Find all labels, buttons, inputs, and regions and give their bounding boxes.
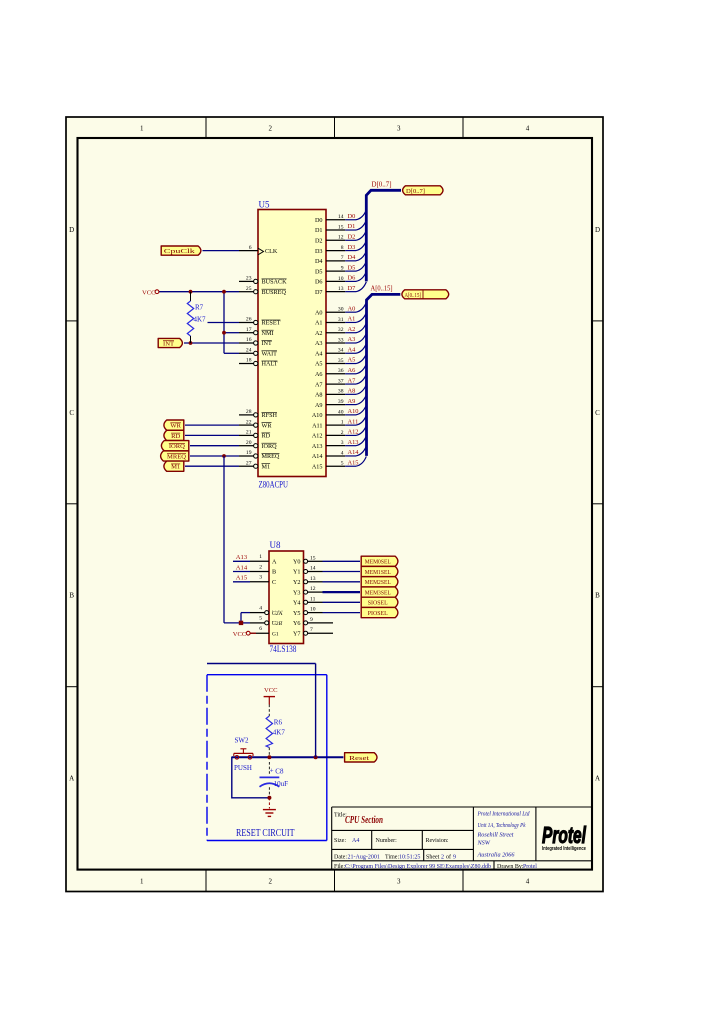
svg-text:A14: A14: [236, 564, 248, 571]
wires from D pins to data bus entries: [345, 210, 366, 292]
svg-text:4K7: 4K7: [194, 316, 207, 324]
wires Y0-Y5 to chip-select ports: [323, 561, 361, 612]
svg-text:A6: A6: [348, 367, 356, 374]
svg-text:RD: RD: [262, 433, 271, 440]
svg-text:7: 7: [310, 627, 313, 633]
designator U8: [270, 540, 281, 550]
svg-text:MEM1SEL: MEM1SEL: [365, 569, 391, 576]
svg-text:2: 2: [259, 564, 262, 570]
svg-text:A0: A0: [348, 305, 356, 312]
switch SW2 PUSH: [234, 737, 253, 772]
port MREQ: [161, 451, 189, 461]
svg-text:R6: R6: [274, 719, 283, 727]
wires from A pins to address bus entries: [345, 302, 366, 466]
svg-text:U5: U5: [259, 200, 270, 210]
svg-text:C8: C8: [275, 768, 284, 776]
CLK pin clock wedge symbol: [258, 248, 264, 255]
port MEM3SEL: [361, 587, 398, 597]
title block frame: [332, 807, 592, 870]
svg-text:BUSACK: BUSACK: [262, 279, 288, 286]
svg-text:B: B: [69, 592, 74, 600]
svg-text:16: 16: [246, 337, 252, 343]
svg-text:1: 1: [341, 420, 344, 426]
company address block: [477, 811, 531, 859]
junction R6/C8 on reset node: [267, 755, 271, 759]
svg-text:Unit 1A, Technology Pk: Unit 1A, Technology Pk: [478, 822, 526, 829]
svg-text:D1: D1: [348, 223, 356, 230]
svg-text:RD: RD: [171, 433, 180, 440]
wire MREQ port to MREQ pin: [190, 455, 239, 457]
svg-text:A9: A9: [348, 398, 356, 405]
svg-text:C: C: [595, 409, 600, 417]
svg-text:C: C: [272, 579, 276, 586]
svg-text:MEM2SEL: MEM2SEL: [365, 579, 391, 586]
port A[0..15]: [402, 290, 449, 299]
svg-text:9: 9: [453, 855, 456, 861]
svg-text:Y2: Y2: [293, 579, 301, 586]
svg-text:Protel: Protel: [542, 822, 586, 848]
svg-text:37: 37: [338, 378, 344, 384]
svg-text:Y3: Y3: [293, 589, 301, 596]
svg-text:Protel International Ltd: Protel International Ltd: [477, 811, 531, 818]
svg-text:Time:: Time:: [385, 855, 399, 861]
wire M1 port to M1 pin: [185, 465, 239, 467]
wire WR port to WR pin: [185, 424, 239, 426]
svg-text:WAIT: WAIT: [262, 351, 278, 358]
junction R7/INT: [189, 341, 193, 345]
svg-text:2: 2: [441, 855, 444, 861]
svg-text:MREQ: MREQ: [262, 453, 280, 460]
svg-text:25: 25: [246, 286, 252, 292]
svg-text:INT: INT: [163, 340, 174, 347]
svg-text:26: 26: [246, 317, 252, 323]
svg-text:Number:: Number:: [376, 838, 398, 844]
svg-text:19: 19: [246, 450, 252, 456]
svg-text:15: 15: [338, 224, 344, 230]
port SIOSEL: [361, 597, 398, 607]
svg-text:Y7: Y7: [293, 630, 301, 637]
vertical wire VCC rail to WAIT: [223, 292, 225, 354]
svg-text:A4: A4: [315, 350, 323, 357]
svg-text:D[0..7]: D[0..7]: [406, 188, 425, 195]
svg-text:G2A: G2A: [272, 611, 283, 617]
wire VCC to BUSREQ pin: [159, 291, 239, 293]
svg-text:18: 18: [246, 358, 252, 364]
svg-text:D4: D4: [315, 258, 323, 265]
wire to NMI pin: [224, 332, 239, 334]
svg-text:VCC: VCC: [142, 289, 156, 296]
wire to WAIT pin: [224, 352, 239, 354]
svg-text:A4: A4: [348, 346, 357, 353]
svg-text:40: 40: [338, 409, 344, 415]
svg-text:31: 31: [338, 317, 344, 323]
junction VCC/vertical rail: [222, 290, 226, 294]
svg-text:3: 3: [341, 440, 344, 446]
svg-text:36: 36: [338, 368, 344, 374]
svg-text:30: 30: [338, 307, 344, 313]
designator U5: [259, 200, 270, 210]
wires to G2A/G2B with junction: [239, 613, 250, 626]
part name Z80ACPU: [259, 480, 289, 490]
svg-text:C:\Program Files\Design Explor: C:\Program Files\Design Explorer 99 SE\E…: [345, 864, 491, 870]
svg-text:Y4: Y4: [293, 600, 301, 607]
svg-text:10: 10: [310, 607, 316, 613]
svg-text:Integrated Intelligence: Integrated Intelligence: [542, 846, 586, 852]
svg-text:Y1: Y1: [293, 569, 301, 576]
svg-text:RESET CIRCUIT: RESET CIRCUIT: [236, 828, 295, 839]
svg-text:NSW: NSW: [477, 840, 491, 847]
svg-text:4: 4: [526, 878, 530, 886]
svg-text:SW2: SW2: [235, 737, 250, 745]
svg-text:32: 32: [338, 327, 344, 333]
svg-text:A13: A13: [312, 443, 323, 450]
svg-text:U8: U8: [270, 540, 281, 550]
svg-text:MEM0SEL: MEM0SEL: [365, 559, 391, 566]
svg-text:21-Aug-2001: 21-Aug-2001: [348, 855, 380, 861]
svg-text:Z80ACPU: Z80ACPU: [259, 480, 289, 490]
wire SW2 left leg loop: [232, 757, 270, 798]
U5 data pins D0-D7 with pin numbers and net labels: [315, 213, 356, 296]
svg-text:Size:: Size:: [334, 838, 346, 844]
port Reset: [345, 753, 377, 762]
svg-text:A11: A11: [312, 422, 322, 429]
svg-text:4: 4: [526, 125, 530, 133]
port D[0..7]: [403, 186, 443, 195]
wire to RESET pin: [208, 322, 240, 324]
svg-text:14: 14: [310, 566, 316, 572]
U8 output pins Y0-Y7 with pin numbers: [293, 555, 333, 637]
port INT: [158, 338, 182, 347]
svg-text:1: 1: [140, 125, 144, 133]
sheet zone dividers and labels: [66, 117, 603, 892]
junction MREQ to decoder rail: [222, 454, 226, 458]
svg-text:2: 2: [268, 878, 272, 886]
wire VCC to R6 (dotted): [268, 705, 270, 717]
svg-text:Y5: Y5: [293, 610, 301, 617]
port CpuClk: [161, 246, 201, 255]
svg-text:INT: INT: [262, 340, 273, 347]
svg-text:CpuClk: CpuClk: [164, 248, 196, 255]
svg-text:33: 33: [338, 337, 344, 343]
svg-text:A3: A3: [315, 340, 323, 347]
junction reset node / feed wire: [314, 755, 318, 759]
svg-text:A3: A3: [348, 336, 356, 343]
svg-text:Rosehill Street: Rosehill Street: [477, 832, 514, 839]
svg-text:File:: File:: [334, 864, 345, 870]
port MEM2SEL: [361, 577, 398, 587]
vertical wire MREQ to 74LS138 enables: [224, 456, 241, 623]
svg-text:17: 17: [246, 327, 252, 333]
svg-text:D2: D2: [348, 234, 356, 241]
svg-text:23: 23: [246, 276, 252, 282]
port M1: [164, 461, 184, 471]
svg-text:A11: A11: [348, 418, 359, 425]
svg-text:A12: A12: [348, 429, 359, 436]
junction C8/SW2 ground node: [267, 796, 271, 800]
U5 address pins A0-A15 with pin numbers and net labels: [312, 305, 359, 470]
svg-text:MEM3SEL: MEM3SEL: [365, 590, 391, 597]
svg-text:A5: A5: [348, 357, 356, 364]
svg-text:13: 13: [310, 576, 316, 582]
svg-text:R7: R7: [195, 304, 204, 312]
svg-text:12: 12: [310, 586, 316, 592]
port IORQ: [161, 441, 188, 451]
svg-text:35: 35: [338, 358, 344, 364]
svg-text:14: 14: [338, 214, 344, 220]
svg-text:RESET: RESET: [262, 320, 281, 327]
svg-text:11: 11: [310, 596, 316, 602]
resistor R7 4K7: [187, 292, 206, 343]
svg-text:15: 15: [310, 555, 316, 561]
svg-text:2: 2: [341, 430, 344, 436]
svg-text:M1: M1: [171, 464, 180, 471]
svg-text:5: 5: [341, 461, 344, 467]
port MEM1SEL: [361, 566, 398, 576]
svg-text:D6: D6: [348, 275, 356, 282]
svg-text:C: C: [69, 409, 74, 417]
svg-text:Protel: Protel: [523, 864, 537, 870]
svg-text:A12: A12: [312, 433, 323, 440]
port RD: [164, 430, 184, 440]
svg-text:1: 1: [259, 554, 262, 560]
title block texts: [334, 813, 537, 871]
svg-text:RFSH: RFSH: [262, 412, 278, 419]
wire CpuClk to CLK pin: [203, 250, 240, 252]
svg-text:A2: A2: [315, 330, 323, 337]
junction VCC/R7: [189, 290, 193, 294]
svg-text:A15: A15: [312, 463, 323, 470]
svg-text:PIOSEL: PIOSEL: [368, 610, 388, 617]
svg-text:D: D: [595, 226, 600, 234]
wire R6 to reset node (dotted): [268, 748, 270, 756]
IC U5 Z80ACPU body: [258, 210, 326, 477]
port WR: [164, 420, 184, 430]
wire RD port to RD pin: [185, 434, 239, 436]
svg-text:39: 39: [338, 399, 344, 405]
svg-text:A15: A15: [236, 575, 248, 582]
svg-text:of: of: [446, 854, 451, 861]
svg-text:D[0..7]: D[0..7]: [372, 180, 392, 188]
svg-text:A[0..15]: A[0..15]: [405, 292, 422, 299]
Protel logo: [542, 822, 586, 852]
svg-text:IORQ: IORQ: [262, 443, 278, 450]
bus net label D[0..7]: [372, 180, 392, 188]
reset node wire to Reset port: [232, 756, 344, 758]
svg-text:74LS138: 74LS138: [270, 644, 297, 654]
svg-text:A1: A1: [348, 316, 356, 323]
svg-text:IORQ: IORQ: [169, 443, 185, 450]
svg-text:A10: A10: [348, 408, 359, 415]
svg-text:A14: A14: [312, 453, 323, 460]
resistor R6 4K7: [266, 716, 285, 748]
svg-text:Y0: Y0: [293, 559, 301, 566]
svg-text:D0: D0: [315, 217, 323, 224]
svg-text:D1: D1: [315, 227, 323, 234]
svg-text:3: 3: [397, 125, 401, 133]
svg-text:D7: D7: [348, 285, 357, 292]
svg-text:10uF: 10uF: [274, 780, 289, 788]
svg-text:5: 5: [259, 616, 262, 622]
svg-text:A: A: [69, 775, 74, 783]
svg-text:Australia 2066: Australia 2066: [477, 852, 516, 859]
label RESET CIRCUIT: [236, 828, 295, 839]
svg-text:A0: A0: [315, 309, 323, 316]
svg-text:A: A: [595, 775, 600, 783]
bus net label A[0..15]: [371, 285, 393, 293]
svg-text:D2: D2: [315, 238, 323, 245]
svg-text:Y6: Y6: [293, 620, 301, 627]
svg-text:NMI: NMI: [262, 330, 274, 337]
svg-text:A6: A6: [315, 371, 323, 378]
svg-text:+: +: [270, 767, 274, 775]
svg-text:Sheet: Sheet: [426, 855, 440, 861]
svg-text:A1: A1: [315, 320, 323, 327]
svg-text:BUSREQ: BUSREQ: [262, 289, 287, 296]
svg-text:D5: D5: [348, 264, 356, 271]
svg-text:D0: D0: [348, 213, 356, 220]
capacitor C8 10uF (polarized): [260, 762, 289, 798]
svg-text:2: 2: [268, 125, 272, 133]
svg-text:G1: G1: [272, 631, 279, 637]
svg-text:A[0..15]: A[0..15]: [371, 285, 393, 293]
svg-text:10: 10: [338, 276, 344, 282]
svg-text:D7: D7: [315, 289, 323, 296]
svg-text:WR: WR: [262, 422, 273, 429]
svg-text:27: 27: [246, 460, 252, 466]
svg-text:B: B: [595, 592, 600, 600]
schematic sheet background: [66, 117, 603, 892]
svg-text:HALT: HALT: [262, 361, 278, 368]
power port VCC (pull-up rail): [142, 289, 159, 296]
svg-text:3: 3: [397, 878, 401, 886]
wire reset node feed (up and left): [207, 664, 316, 758]
address bus A[0..15]: [367, 294, 401, 456]
ground symbol: [263, 798, 276, 817]
port MEM0SEL: [361, 556, 398, 566]
svg-text:6: 6: [249, 245, 252, 251]
IC U8 74LS138 body: [269, 551, 304, 644]
svg-text:A15: A15: [348, 459, 359, 466]
power port VCC at U8 G1: [233, 631, 256, 638]
svg-text:1: 1: [140, 878, 144, 886]
svg-text:A13: A13: [236, 554, 248, 561]
svg-text:Drawn By:: Drawn By:: [497, 864, 524, 870]
svg-text:20: 20: [246, 440, 252, 446]
svg-text:D3: D3: [315, 248, 323, 255]
svg-text:A8: A8: [348, 388, 356, 395]
svg-text:38: 38: [338, 389, 344, 395]
svg-text:A2: A2: [348, 326, 356, 333]
svg-text:D6: D6: [315, 279, 323, 286]
svg-text:A7: A7: [348, 377, 357, 384]
svg-text:A9: A9: [315, 402, 323, 409]
svg-text:D4: D4: [348, 254, 357, 261]
svg-text:A4: A4: [352, 838, 359, 844]
svg-text:CLK: CLK: [265, 248, 278, 255]
svg-text:D5: D5: [315, 268, 323, 275]
svg-text:34: 34: [338, 348, 344, 354]
reset circuit enclosure box: [207, 675, 327, 841]
svg-text:9: 9: [310, 617, 313, 623]
svg-text:10:51:25: 10:51:25: [399, 855, 420, 861]
svg-text:3: 3: [259, 575, 262, 581]
wire IORQ port to IORQ pin: [190, 445, 239, 447]
svg-text:12: 12: [338, 235, 344, 241]
svg-text:6: 6: [259, 626, 262, 632]
svg-text:SIOSEL: SIOSEL: [368, 600, 388, 607]
svg-text:A: A: [272, 559, 277, 566]
svg-text:PUSH: PUSH: [234, 764, 252, 772]
U5 control pins (left side) with pin numbers: [239, 245, 287, 471]
svg-text:9: 9: [341, 266, 344, 272]
svg-text:VCC: VCC: [264, 687, 278, 694]
svg-text:MREQ: MREQ: [167, 453, 186, 460]
svg-text:24: 24: [246, 348, 252, 354]
svg-text:CPU Section: CPU Section: [345, 815, 383, 826]
svg-text:D: D: [69, 226, 74, 234]
svg-text:WR: WR: [170, 423, 181, 430]
svg-text:A8: A8: [315, 392, 323, 399]
U8 enable pins G2A,G2B,G1: [250, 605, 283, 637]
svg-text:G2B: G2B: [272, 621, 283, 627]
svg-text:A10: A10: [312, 412, 323, 419]
junction NMI: [222, 331, 226, 335]
svg-text:22: 22: [246, 419, 252, 425]
svg-text:8: 8: [341, 245, 344, 251]
svg-text:Revision:: Revision:: [426, 838, 449, 844]
svg-text:7: 7: [341, 255, 344, 261]
svg-text:VCC: VCC: [233, 631, 247, 638]
power port VCC (reset circuit) bar style: [264, 687, 279, 705]
svg-text:Date:: Date:: [334, 855, 347, 861]
part name 74LS138: [270, 644, 297, 654]
U8 select input pins A,B,C with net labels A13,A14,A15: [233, 554, 277, 586]
svg-text:13: 13: [338, 286, 344, 292]
svg-text:Reset: Reset: [349, 755, 369, 762]
svg-text:21: 21: [246, 430, 252, 436]
svg-text:B: B: [272, 569, 276, 576]
svg-text:A13: A13: [348, 439, 359, 446]
svg-text:4: 4: [341, 450, 344, 456]
svg-text:A7: A7: [315, 381, 323, 388]
data bus D[0..7]: [366, 190, 401, 281]
svg-text:4: 4: [259, 605, 262, 611]
svg-text:M1: M1: [262, 463, 271, 470]
port PIOSEL: [361, 607, 398, 617]
svg-text:A5: A5: [315, 361, 323, 368]
svg-text:28: 28: [246, 409, 252, 415]
svg-text:4K7: 4K7: [273, 729, 286, 737]
svg-text:D3: D3: [348, 244, 356, 251]
wire INT port to INT pin: [184, 342, 239, 344]
